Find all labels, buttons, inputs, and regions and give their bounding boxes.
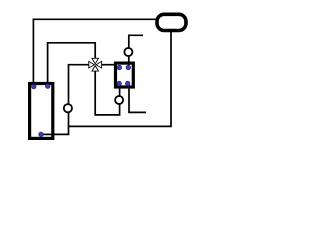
wire W5 valve right arm to heat exchanger left [101,64,115,66]
wire stub into boiler to top-right dot [47,84,49,87]
wire W3 valve left arm down through pump P1 to boiler bottom [41,65,89,135]
node dot boiler top-right [46,84,50,88]
wire stub into exchanger from bottom edge to bottom-right dot [128,84,130,89]
node dot exchanger top-left [117,65,121,69]
pump P2 (circle on W6 below exchanger) [115,96,123,104]
node dot exchanger bottom-left [117,81,121,85]
wire W2 boiler right port to mixing valve top [48,43,96,87]
wire stub into exchanger from bottom edge to bottom-left dot [119,84,121,89]
mixing valve V1 (four arrows pointing to center) [89,58,102,71]
pump P3 (circle on W8 above exchanger) [124,48,132,56]
valve V1 bottom arrow [92,66,99,72]
wire W6 valve bottom down, right, up through pump P2 into exchanger bottom-left [95,71,119,115]
node dot exchanger bottom-right [126,81,130,85]
heat exchanger HX1 (small thick rectangle) [116,63,134,87]
wire W4 tank bottom down and left to node on W3 [69,31,172,127]
wire stub from boiler bottom dot to right edge [41,133,53,135]
pump P1 (circle on W3 vertical) [64,104,72,112]
node dot boiler bottom [39,132,43,136]
valve V1 right arrow [96,61,102,68]
valve V1 left arrow [89,61,95,68]
wire W7 exchanger bottom-right stub (dangling) [129,89,146,113]
valve V1 top arrow [92,58,99,64]
wire W8 exchanger top stub through pump P3 (dangling) [129,35,143,61]
node dot boiler top-left [32,84,36,88]
wire stub into boiler to top-left dot [32,84,34,87]
wire stub into exchanger to top-right dot [128,62,130,68]
expansion tank T1 (top-right rounded vessel) [157,14,186,30]
node dot exchanger top-right [126,65,130,69]
boiler B1 (left thick rectangle) [30,84,53,139]
wire W1 boiler left port to expansion tank (top outer loop) [33,19,157,87]
